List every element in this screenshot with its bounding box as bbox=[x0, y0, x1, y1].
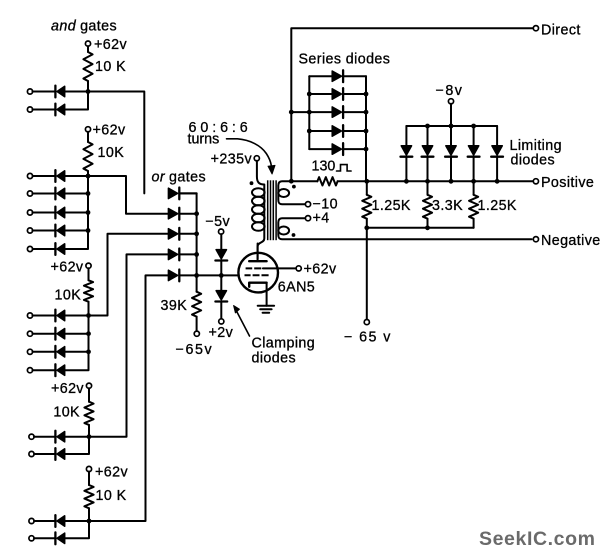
wire positive rail left bbox=[293, 180, 318, 182]
wire series diode row 1 right bbox=[344, 75, 366, 77]
junction top bus x=427.5 bbox=[425, 124, 430, 129]
wire limiting diode 3 lower lead bbox=[450, 157, 452, 182]
junction top bus x=451 bbox=[449, 124, 454, 129]
wire input 3c bbox=[33, 351, 55, 353]
phase dot secondary 1 bbox=[292, 185, 296, 189]
wire diode 4b up to bus bbox=[65, 437, 89, 454]
junction or bus row 2 bbox=[194, 211, 199, 216]
wire diode 5b up to bus bbox=[65, 521, 89, 538]
svg-text:10K: 10K bbox=[53, 405, 80, 421]
wire input 2b bbox=[33, 193, 55, 195]
terminal input 2e bbox=[27, 246, 32, 251]
diode and-gate3 input b bbox=[55, 328, 64, 340]
resistor 1.25K x=366.8 bbox=[362, 195, 371, 219]
wire diode 2d to bus bbox=[65, 230, 88, 232]
junction and-gate2 bus row 4 bbox=[86, 228, 91, 233]
wire supply lead (and gate 3) bbox=[88, 268, 90, 280]
wire 1.25K lower lead x=473.6 bbox=[473, 219, 475, 228]
svg-text:130: 130 bbox=[312, 159, 336, 175]
svg-text:−65v: −65v bbox=[176, 342, 214, 358]
wire and-gate1 output to or-gate row1 bbox=[88, 92, 144, 194]
junction or bus row 4 bbox=[194, 252, 199, 257]
wire diode 2a to bus bbox=[65, 175, 88, 177]
svg-text:Direct: Direct bbox=[541, 23, 581, 39]
wire diode 2e up to bus bbox=[65, 231, 88, 250]
wire cathode lead to ground bbox=[266, 283, 268, 306]
diode or-gate row 3 bbox=[168, 228, 179, 240]
junction and-gate2 bus row 1 bbox=[86, 174, 91, 179]
wire series diode row 5 right bbox=[344, 148, 366, 150]
diode and-gate1 input b bbox=[55, 104, 64, 116]
diode or-gate row 4 bbox=[168, 249, 179, 261]
terminal -65v (right) bbox=[364, 320, 369, 325]
junction positive rail x=427.5 bbox=[425, 179, 430, 184]
diode and-gate5 input b bbox=[55, 532, 64, 544]
diode and-gate1 input a bbox=[55, 86, 64, 98]
tube control grid (dashed) bbox=[245, 274, 269, 276]
wire input 4b bbox=[34, 453, 54, 455]
wire input 2e bbox=[33, 248, 55, 250]
transformer primary winding bbox=[252, 161, 265, 260]
terminal input 5a bbox=[29, 518, 34, 523]
wire Direct line bbox=[291, 28, 533, 181]
svg-text:10 K: 10 K bbox=[96, 488, 127, 504]
junction and-gate3 bus row 2 bbox=[86, 331, 91, 336]
junction and-gate2 bus row 3 bbox=[86, 210, 91, 215]
junction series left bus y=94 bbox=[307, 92, 312, 97]
wire diode 1a to node bbox=[65, 91, 88, 93]
diode and-gate5 input a bbox=[55, 515, 64, 527]
wire or-gate row 3 to bus bbox=[180, 233, 196, 235]
wire series diode row 2 right bbox=[344, 93, 366, 95]
limiting diode 5 bbox=[491, 146, 503, 157]
arrow turns callout bbox=[227, 139, 276, 174]
junction series left bus y=131 bbox=[307, 129, 312, 134]
junction or bus to grid line bbox=[194, 273, 199, 278]
terminal Negative bbox=[533, 237, 538, 242]
transformer core bbox=[268, 180, 276, 240]
wire limiting diode 1 lower lead bbox=[405, 157, 407, 182]
series diode 4 bbox=[332, 125, 343, 137]
svg-text:6AN5: 6AN5 bbox=[278, 280, 315, 296]
svg-text:−5v: −5v bbox=[205, 214, 230, 230]
pulse symbol after 130 bbox=[337, 165, 352, 171]
terminal input 2d bbox=[27, 228, 32, 233]
terminal input 2a bbox=[27, 173, 32, 178]
wire supply lead (and gate 1) bbox=[87, 46, 89, 52]
svg-text:diodes: diodes bbox=[511, 152, 556, 168]
series diode 2 bbox=[332, 88, 343, 100]
terminal +62v supply (and gate 2) bbox=[85, 127, 90, 132]
svg-text:+62v: +62v bbox=[51, 381, 84, 397]
wire or-gate output bus bbox=[196, 193, 198, 275]
terminal +4 bbox=[305, 216, 310, 221]
wire input 3b bbox=[33, 333, 55, 335]
ground symbol bbox=[258, 306, 274, 313]
svg-text:− 65 v: − 65 v bbox=[344, 330, 392, 346]
resistor 130 bbox=[317, 177, 337, 185]
svg-text:−8v: −8v bbox=[436, 83, 464, 99]
junction and-gate4 output bbox=[87, 434, 92, 439]
wire grid line to tube bbox=[180, 274, 239, 276]
svg-text:10K: 10K bbox=[98, 145, 125, 161]
limiting diode 4 bbox=[468, 146, 480, 157]
transformer secondary 1 (top) bbox=[278, 181, 305, 204]
wire resistor to node (and gate 1) bbox=[87, 81, 89, 92]
phase dot primary bbox=[250, 181, 254, 185]
wire or-gate row 2 to bus bbox=[180, 213, 196, 215]
wire limiting diode 5 upper lead bbox=[496, 126, 498, 146]
wire 39K to terminal bbox=[196, 317, 198, 332]
svg-text:Series diodes: Series diodes bbox=[299, 51, 391, 67]
wire grid line to clamp D2 bbox=[220, 275, 222, 290]
tube 6AN5 envelope bbox=[238, 253, 278, 293]
wire supply lead (and gate 5) bbox=[88, 472, 90, 486]
terminal input 2b bbox=[27, 191, 32, 196]
diode or-gate row 5 bbox=[168, 270, 179, 282]
wire or bus down to 39K bbox=[196, 275, 198, 291]
wire resistor to node (and gate 4) bbox=[88, 425, 90, 437]
wire or-gate row1 diode to bus corner bbox=[180, 192, 196, 194]
diode and-gate2 input e bbox=[55, 243, 64, 255]
resistor 10K (and gate 3) bbox=[84, 280, 93, 301]
limiting diode 2 bbox=[422, 146, 434, 157]
junction series right bus y=131 bbox=[364, 129, 369, 134]
wire input 4a bbox=[34, 436, 54, 438]
wire and-gate2 output to or-gate row2 bbox=[88, 176, 168, 214]
svg-text:Clamping: Clamping bbox=[252, 336, 316, 352]
clamping diode D1 bbox=[215, 250, 227, 261]
junction positive rail x=451 bbox=[449, 179, 454, 184]
wire 3.3K lower lead x=427.5 bbox=[427, 219, 429, 228]
svg-text:turns: turns bbox=[188, 132, 220, 148]
junction positive rail x=406.4 bbox=[404, 179, 409, 184]
terminal Direct bbox=[533, 26, 538, 31]
series diode 1 bbox=[332, 70, 343, 82]
wire limiting diode 2 upper lead bbox=[427, 126, 429, 146]
diode and-gate4 input b bbox=[55, 448, 64, 460]
wire and-gate3 output to or-gate row3 bbox=[89, 234, 169, 316]
resistor 10K (and gate 5) bbox=[84, 485, 93, 508]
wire input 2a bbox=[33, 175, 55, 177]
wire plate lead bbox=[257, 244, 259, 260]
wire series diodes left bus bbox=[308, 76, 310, 149]
wire limiting diode 2 lower lead bbox=[427, 157, 429, 182]
terminal Positive bbox=[533, 179, 538, 184]
series diode 5 bbox=[332, 143, 343, 155]
wire diode 3a to bus bbox=[65, 315, 89, 317]
svg-text:39K: 39K bbox=[161, 298, 188, 314]
junction and-gate3 bus row 3 bbox=[86, 349, 91, 354]
terminal -5v bbox=[219, 229, 224, 234]
wire input 3d bbox=[33, 369, 55, 371]
junction and-gate3 bus row 1 bbox=[86, 313, 91, 318]
diode and-gate4 input a bbox=[55, 431, 64, 443]
svg-text:+62v: +62v bbox=[94, 37, 127, 53]
junction top bus x=473.6 bbox=[471, 124, 476, 129]
terminal +62v supply (and gate 1) bbox=[85, 41, 90, 46]
wire resistor to node (and gate 3) bbox=[88, 302, 90, 316]
wire input 1b bbox=[33, 109, 55, 111]
wire and-gate5 output to or-gate row5 bbox=[89, 275, 168, 521]
terminal input 4a bbox=[29, 434, 34, 439]
svg-text:Negative: Negative bbox=[541, 233, 600, 249]
junction Direct line to transformer bbox=[289, 179, 294, 184]
arrow clamping diodes callout bbox=[234, 306, 250, 337]
wire limiting diode 4 lower lead bbox=[473, 157, 475, 182]
terminal input 3d bbox=[27, 368, 32, 373]
wire diode 2b to bus bbox=[65, 193, 88, 195]
resistor 3.3K x=427.5 bbox=[423, 195, 432, 219]
wire input 5a bbox=[34, 520, 54, 522]
tube cathode bbox=[249, 283, 266, 287]
terminal +2v bbox=[219, 319, 224, 324]
wire series diode row 5 left bbox=[309, 148, 332, 150]
wire feed to series diodes bbox=[291, 111, 309, 113]
wire screen grid to +62v terminal bbox=[263, 267, 296, 269]
terminal input 5b bbox=[29, 536, 34, 541]
wire series diode row 4 right bbox=[344, 130, 366, 132]
junction series left bus y=112.1 bbox=[307, 110, 312, 115]
diode or-gate row 2 bbox=[168, 208, 179, 220]
wire diode 2c to bus bbox=[65, 212, 88, 214]
resistor 10K (and gate 1) bbox=[83, 52, 92, 81]
svg-text:diodes: diodes bbox=[252, 351, 297, 367]
terminal +235v bbox=[254, 156, 259, 161]
tube screen grid (dashed) bbox=[246, 267, 262, 269]
wire clamp D2 to terminal bbox=[220, 301, 222, 319]
wire -8v lead bbox=[450, 104, 452, 126]
wire limiting diode 1 upper lead bbox=[405, 126, 407, 146]
junction rail / series bus / 1.25K bbox=[364, 179, 369, 184]
svg-text:+62v: +62v bbox=[50, 260, 83, 276]
wire diode 4a to bus bbox=[65, 436, 89, 438]
wire series diode row 4 left bbox=[309, 130, 332, 132]
wire resistor to node (and gate 2) bbox=[87, 171, 89, 176]
svg-text:1.25K: 1.25K bbox=[372, 198, 411, 214]
wire diode 1b up to node bbox=[65, 92, 88, 110]
wire 1.25K upper lead x=366.8 bbox=[366, 181, 368, 195]
svg-text:+62v: +62v bbox=[93, 123, 126, 139]
diode and-gate2 input d bbox=[55, 225, 64, 237]
terminal input 3b bbox=[27, 331, 32, 336]
svg-text:3.3K: 3.3K bbox=[432, 198, 463, 214]
junction Direct line to series diodes feed bbox=[289, 110, 294, 115]
svg-text:+4: +4 bbox=[313, 211, 330, 227]
wire and-gate2 bus bbox=[87, 176, 89, 231]
diode or-gate row 1 bbox=[168, 188, 179, 200]
diode and-gate2 input a bbox=[55, 170, 64, 182]
junction node and-gate1 output bbox=[86, 89, 91, 94]
wire input 5b bbox=[34, 537, 54, 539]
wire limiting diode 5 lower lead bbox=[496, 157, 498, 182]
diode and-gate3 input a bbox=[55, 310, 64, 322]
diode and-gate2 input c bbox=[55, 207, 64, 219]
wire and-gate4 output to or-gate row4 bbox=[89, 254, 168, 436]
resistor 1.25K x=473.6 bbox=[469, 195, 478, 219]
wire series diodes right bus bbox=[365, 76, 367, 181]
wire series diode row 1 left bbox=[309, 75, 332, 77]
junction and-gate2 bus row 2 bbox=[86, 191, 91, 196]
diode and-gate2 input b bbox=[55, 188, 64, 200]
junction series right bus y=149.1 bbox=[364, 147, 369, 152]
svg-text:+62v: +62v bbox=[95, 465, 128, 481]
wire input 3a bbox=[33, 315, 55, 317]
diode and-gate3 input c bbox=[55, 346, 64, 358]
junction positive rail x=497.1 bbox=[495, 179, 500, 184]
terminal -65v (39K) bbox=[194, 331, 199, 336]
wire input 1a bbox=[33, 91, 55, 93]
wire and-gate3 bus bbox=[88, 316, 90, 352]
terminal -10 bbox=[305, 202, 310, 207]
wire limiting diodes top bus bbox=[406, 125, 497, 127]
svg-text:10 K: 10 K bbox=[95, 59, 126, 75]
junction divider bottom middle bbox=[425, 225, 430, 230]
wire series diode row 3 left bbox=[309, 111, 332, 113]
junction and-gate5 output bbox=[87, 519, 92, 524]
limiting diode 3 bbox=[445, 146, 457, 157]
wire divider bottom bus bbox=[367, 227, 474, 229]
terminal input 1a bbox=[27, 89, 32, 94]
wire diode 3d up to bus bbox=[65, 352, 89, 370]
wire resistor to node (and gate 5) bbox=[88, 508, 90, 521]
wire limiting diode 4 upper lead bbox=[473, 126, 475, 146]
wire or-gate row 1 to bus bbox=[180, 192, 196, 194]
wire 1.25K lower lead x=366.8 bbox=[366, 219, 368, 228]
wire series diode row 2 left bbox=[309, 93, 332, 95]
junction clamping diodes on grid line bbox=[219, 273, 224, 278]
junction or bus row 3 bbox=[194, 231, 199, 236]
svg-text:+2v: +2v bbox=[209, 325, 234, 341]
junction series right bus y=112.1 bbox=[364, 110, 369, 115]
wire to -65v terminal (right) bbox=[366, 228, 368, 320]
terminal input 1b bbox=[27, 107, 32, 112]
svg-text:+62v: +62v bbox=[304, 262, 337, 278]
wire clamp D1 to grid line bbox=[220, 260, 222, 275]
terminal +62v supply (and gate 5) bbox=[86, 466, 91, 471]
wire 1.25K upper lead x=473.6 bbox=[473, 181, 475, 195]
wire input 2d bbox=[33, 230, 55, 232]
terminal input 2c bbox=[27, 210, 32, 215]
wire positive rail right bbox=[338, 180, 534, 182]
svg-text:1.25K: 1.25K bbox=[478, 198, 517, 214]
svg-text:+235v: +235v bbox=[211, 151, 253, 167]
wire input 2c bbox=[33, 212, 55, 214]
terminal input 3a bbox=[27, 313, 32, 318]
junction divider bottom left bbox=[364, 225, 369, 230]
wire supply lead (and gate 4) bbox=[88, 388, 90, 402]
wire diode 5a to bus bbox=[65, 520, 89, 522]
wire 3.3K upper lead x=427.5 bbox=[427, 181, 429, 195]
wire -5v lead bbox=[220, 234, 222, 250]
tube plate bbox=[249, 260, 266, 262]
wire series diode row 3 right bbox=[344, 111, 366, 113]
terminal +62v (screen) bbox=[296, 266, 301, 271]
terminal -8v bbox=[448, 99, 453, 104]
wire limiting diode 3 upper lead bbox=[450, 126, 452, 146]
terminal input 3c bbox=[27, 349, 32, 354]
terminal +62v supply (and gate 3) bbox=[86, 263, 91, 268]
terminal +62v supply (and gate 4) bbox=[86, 383, 91, 388]
transformer secondary 2 (bottom) bbox=[278, 218, 531, 239]
clamping diode D2 bbox=[215, 291, 227, 302]
svg-text:SeekIC.com: SeekIC.com bbox=[479, 528, 596, 550]
resistor 10K (and gate 2) bbox=[83, 142, 92, 171]
series diode 3 bbox=[332, 106, 343, 118]
svg-text:andgates: andgates bbox=[51, 19, 117, 35]
junction series right bus y=94 bbox=[364, 92, 369, 97]
resistor 10K (and gate 4) bbox=[84, 402, 93, 425]
wire supply lead (and gate 2) bbox=[87, 132, 89, 142]
svg-text:orgates: orgates bbox=[152, 170, 207, 186]
junction positive rail x=473.6 bbox=[471, 179, 476, 184]
svg-text:Positive: Positive bbox=[541, 175, 594, 191]
limiting diode 1 bbox=[401, 146, 413, 157]
wire diode 3b to bus bbox=[65, 333, 89, 335]
svg-text:10K: 10K bbox=[55, 288, 82, 304]
resistor 39K bbox=[192, 292, 201, 317]
wire diode 3c to bus bbox=[65, 351, 89, 353]
wire or-gate row 4 to bus bbox=[180, 253, 196, 255]
phase dot secondary 2 bbox=[292, 233, 296, 237]
diode and-gate3 input d bbox=[55, 364, 64, 376]
terminal input 4b bbox=[29, 451, 34, 456]
